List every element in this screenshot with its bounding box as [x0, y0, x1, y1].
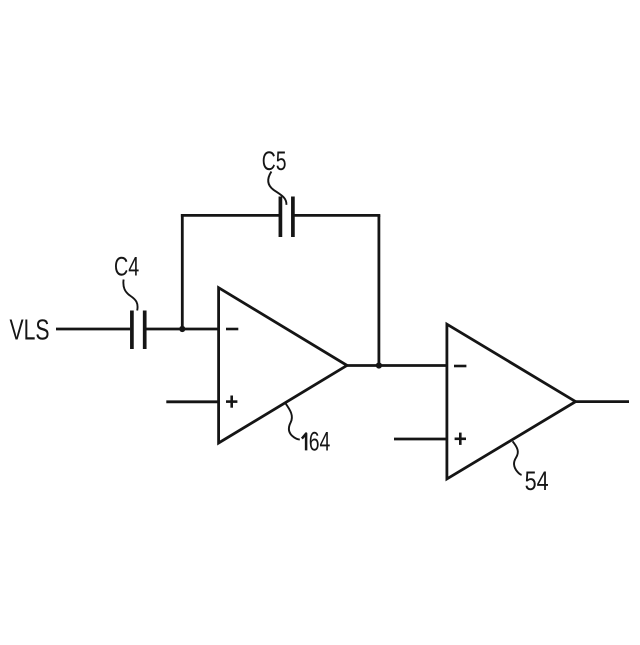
svg-text:64: 64 — [309, 426, 331, 456]
junction — [179, 326, 185, 332]
node VLS — [10, 314, 50, 346]
wire — [346, 364, 447, 367]
pin - (54) — [454, 365, 466, 368]
wire — [56, 328, 130, 331]
op-amp 164 — [219, 288, 347, 443]
svg-text:54: 54 — [525, 467, 549, 497]
pin + (54) — [455, 433, 466, 445]
svg-text:C4: C4 — [114, 253, 139, 283]
pin - (164) — [226, 328, 238, 331]
wire — [394, 438, 447, 441]
junction — [376, 362, 382, 368]
capacitor C4 — [132, 311, 145, 350]
label 164 — [285, 403, 330, 456]
svg-text:C5: C5 — [262, 146, 287, 176]
label C5 — [262, 146, 287, 205]
label 54 — [513, 441, 549, 496]
pin + (164) — [226, 396, 237, 408]
wire — [181, 214, 281, 217]
svg-text:VLS: VLS — [10, 314, 50, 346]
wire — [377, 215, 380, 365]
wire — [181, 214, 184, 329]
wire — [166, 400, 218, 403]
wire — [293, 214, 380, 217]
wire — [575, 400, 629, 403]
label C4 — [114, 253, 139, 311]
op-amp 54 — [447, 324, 576, 479]
wire — [146, 328, 219, 331]
capacitor C5 — [280, 197, 293, 238]
